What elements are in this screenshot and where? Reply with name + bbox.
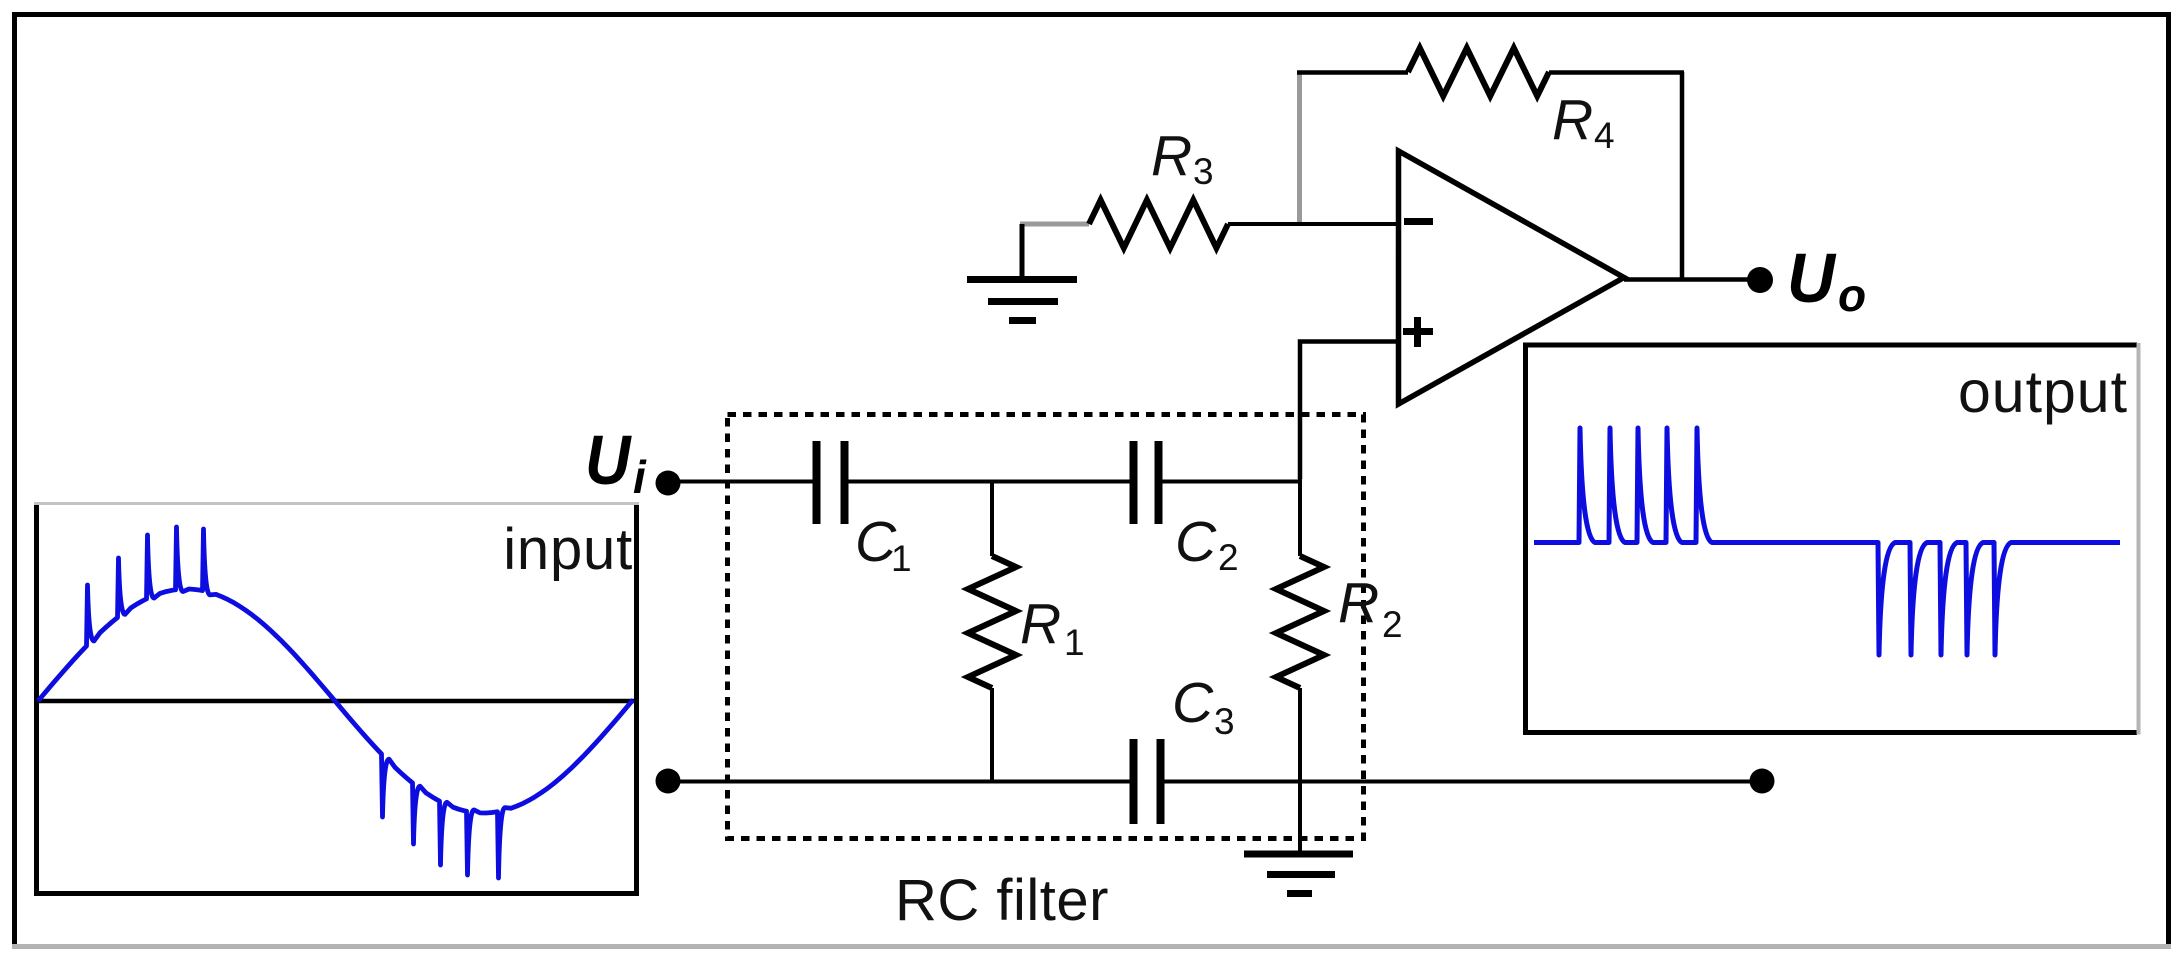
C3 value label (1172, 671, 1235, 742)
node Uo label (1787, 239, 1866, 321)
wire R3 to op-amp inverting input (1228, 222, 1398, 226)
resistor R1 (968, 556, 1016, 688)
R3 value label (1151, 124, 1214, 192)
op-amp inverting input minus sign (1404, 218, 1433, 225)
svg-text:4: 4 (1594, 115, 1615, 156)
resistor R4 (1408, 48, 1549, 96)
wire feedback top right (1549, 70, 1684, 75)
node dot bottom right (1750, 769, 1775, 794)
svg-text:i: i (633, 451, 647, 503)
wire C3 to output node (1162, 780, 1762, 784)
node dot bottom left (656, 769, 681, 794)
wire R2 to ground (1298, 688, 1302, 854)
wire plus input from RC filter (1300, 342, 1398, 480)
svg-text:o: o (1838, 269, 1866, 321)
C2 value label (1175, 510, 1239, 578)
svg-text:U: U (1787, 239, 1837, 317)
wire feedback vertical (gray) (1297, 72, 1302, 222)
svg-text:R: R (1338, 571, 1379, 635)
wire R1 to bottom rail (990, 688, 994, 782)
svg-text:R: R (1020, 592, 1061, 656)
svg-text:R: R (1151, 124, 1192, 188)
svg-text:output: output (1958, 359, 2128, 425)
wire bottom-left node to C3 (668, 780, 1130, 784)
input waveform box (34, 503, 639, 894)
input waveform (blue sine with spikes) (38, 527, 633, 878)
input axis midline (39, 699, 635, 704)
wire op-amp output (1624, 277, 1762, 282)
op-amp non-inverting input plus sign (1403, 317, 1433, 347)
R1 value label (1020, 592, 1085, 663)
ground symbol at R3 (967, 280, 1077, 321)
ground symbol below R2 (1244, 854, 1353, 894)
wire C1 to C2 (848, 480, 1130, 484)
R2 value label (1338, 571, 1403, 645)
svg-text:2: 2 (1218, 537, 1239, 578)
wire feedback right vertical (1680, 72, 1685, 280)
svg-text:RC filter: RC filter (895, 868, 1109, 933)
wire C2 to node at R2 (1162, 480, 1302, 484)
svg-text:U: U (585, 422, 632, 500)
wire ground vertical (1020, 224, 1025, 278)
resistor R3 (1089, 200, 1228, 248)
capacitor C2 (1134, 441, 1159, 524)
svg-text:input: input (503, 517, 633, 582)
wire node down to R2 (1298, 479, 1302, 556)
node Ui label (585, 422, 647, 503)
C1 value label (855, 510, 912, 579)
svg-text:2: 2 (1382, 604, 1403, 645)
svg-text:R: R (1552, 88, 1593, 152)
capacitor C3 (1134, 739, 1161, 824)
resistor R2 (1276, 556, 1324, 688)
output waveform (blue spike train) (1534, 428, 2120, 655)
svg-text:3: 3 (1214, 701, 1235, 742)
op-amp U1 triangle (1399, 151, 1625, 404)
R4 value label (1552, 88, 1615, 156)
svg-text:C: C (1172, 671, 1214, 735)
RC filter dashed enclosure (728, 415, 1364, 839)
svg-text:1: 1 (891, 538, 912, 579)
wire ground stub to R3 (gray) (1020, 222, 1089, 227)
svg-text:1: 1 (1064, 622, 1085, 663)
wire top node down to R1 (990, 481, 994, 556)
node Ui junction dot (656, 471, 681, 496)
svg-text:C: C (1175, 510, 1217, 574)
svg-text:3: 3 (1193, 151, 1214, 192)
wire feedback top left (1297, 70, 1408, 75)
node Uo dot (1747, 267, 1773, 293)
wire Ui to C1 (668, 480, 813, 484)
output waveform box (1526, 343, 2139, 735)
capacitor C1 (817, 441, 845, 524)
